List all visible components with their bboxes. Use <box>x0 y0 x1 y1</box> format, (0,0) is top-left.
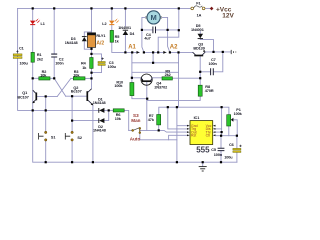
svg-text:R5: R5 <box>115 35 120 39</box>
svg-text:C5: C5 <box>211 148 216 152</box>
svg-text:1N4148: 1N4148 <box>93 101 106 105</box>
svg-text:1N4148: 1N4148 <box>65 41 78 45</box>
svg-text:47k: 47k <box>148 118 155 122</box>
svg-text:470R: 470R <box>205 89 214 93</box>
svg-text:555: 555 <box>196 146 210 155</box>
svg-text:Bc107: Bc107 <box>71 89 82 93</box>
svg-text:10k: 10k <box>40 73 47 77</box>
svg-text:M: M <box>150 13 156 22</box>
svg-text:L1: L1 <box>41 22 45 26</box>
svg-text:2k2: 2k2 <box>165 73 171 77</box>
svg-text:12V: 12V <box>222 13 234 20</box>
svg-text:100n: 100n <box>214 153 223 157</box>
svg-text:Rst: Rst <box>191 134 196 138</box>
svg-text:BC107: BC107 <box>17 96 28 100</box>
svg-text:Auto: Auto <box>130 137 141 142</box>
svg-text:1N4001: 1N4001 <box>118 26 131 30</box>
svg-text:C1: C1 <box>19 47 24 51</box>
svg-text:2k2: 2k2 <box>37 57 43 61</box>
svg-text:R1: R1 <box>37 53 42 57</box>
svg-text:S1: S1 <box>51 135 55 139</box>
svg-text:S2: S2 <box>77 136 81 140</box>
svg-text:100u: 100u <box>224 155 233 159</box>
svg-text:100n: 100n <box>55 61 64 65</box>
svg-text:1A: 1A <box>197 13 202 17</box>
svg-text:A/2: A/2 <box>96 40 104 46</box>
svg-text:10k: 10k <box>73 73 80 77</box>
svg-text:RLY1: RLY1 <box>96 34 105 38</box>
svg-text:100k: 100k <box>234 112 243 116</box>
svg-text:Ctl: Ctl <box>206 134 211 138</box>
svg-text:1N4148: 1N4148 <box>93 129 106 133</box>
svg-text:A2: A2 <box>170 44 178 50</box>
svg-text:100k: 100k <box>114 84 123 88</box>
svg-text:C6: C6 <box>229 143 234 147</box>
svg-text:L2: L2 <box>102 22 106 26</box>
svg-text:1N4001: 1N4001 <box>191 28 204 32</box>
svg-text:100n: 100n <box>209 62 218 66</box>
svg-text:Man: Man <box>131 118 140 123</box>
svg-text:2N3702: 2N3702 <box>154 86 167 90</box>
svg-text:100u: 100u <box>20 62 29 66</box>
svg-text:4u7: 4u7 <box>144 37 150 41</box>
svg-text:IC1: IC1 <box>194 116 200 120</box>
svg-text:BD139: BD139 <box>193 46 204 50</box>
svg-text:10k: 10k <box>115 117 122 121</box>
svg-text:A1: A1 <box>128 44 136 50</box>
svg-text:100u: 100u <box>108 65 117 69</box>
svg-text:F1: F1 <box>196 2 200 6</box>
